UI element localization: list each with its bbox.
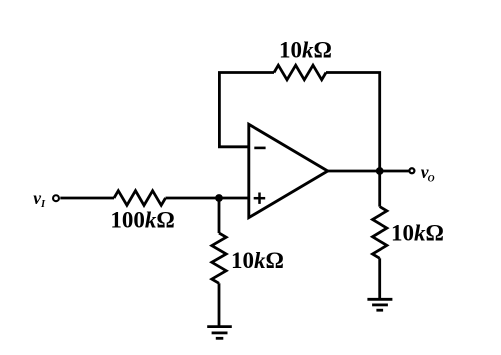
svg-text:10kΩ: 10kΩ [231,248,284,273]
node A junction dot [215,194,223,202]
resistor 10kΩ (output load) [373,207,387,259]
svg-text:10kΩ: 10kΩ [279,38,332,63]
output terminal vO (open circle) [409,168,414,173]
svg-text:I: I [40,199,46,210]
ground (right) [367,299,392,310]
wire: node A down to shunt resistor [218,198,221,233]
op-amp inverting input marker (-) [254,147,265,150]
ground (middle) [207,327,232,339]
wire: shunt resistor to middle ground [218,283,221,326]
wire: inverting input + feedback left vertical + feedback top-left segment [219,73,274,147]
resistor 10kΩ (feedback) [274,65,326,80]
label vO [421,162,435,185]
node vO junction dot [376,167,384,175]
wire: input terminal to resistor 100kΩ [60,197,114,200]
wire: feedback top-right segment + right vertical down to output node [326,73,380,172]
svg-text:v: v [33,188,41,208]
wire: resistor 100kΩ to node A and on to op-amp non-inverting input [166,197,249,200]
svg-text:O: O [428,174,435,185]
wire: load resistor to right ground [378,258,381,299]
input terminal vI (open circle) [53,195,59,201]
svg-text:100kΩ: 100kΩ [110,208,174,233]
resistor 10kΩ (shunt at + input) [212,233,226,283]
svg-text:10kΩ: 10kΩ [391,220,444,245]
op-amp non-inverting input marker (+) [254,193,266,204]
wire: output node down to load resistor [378,171,381,207]
label vI [33,188,46,210]
op-amp U1 [249,124,328,217]
wire: op-amp output to terminal vO [328,170,409,173]
resistor 100kΩ (input series) [114,191,166,206]
